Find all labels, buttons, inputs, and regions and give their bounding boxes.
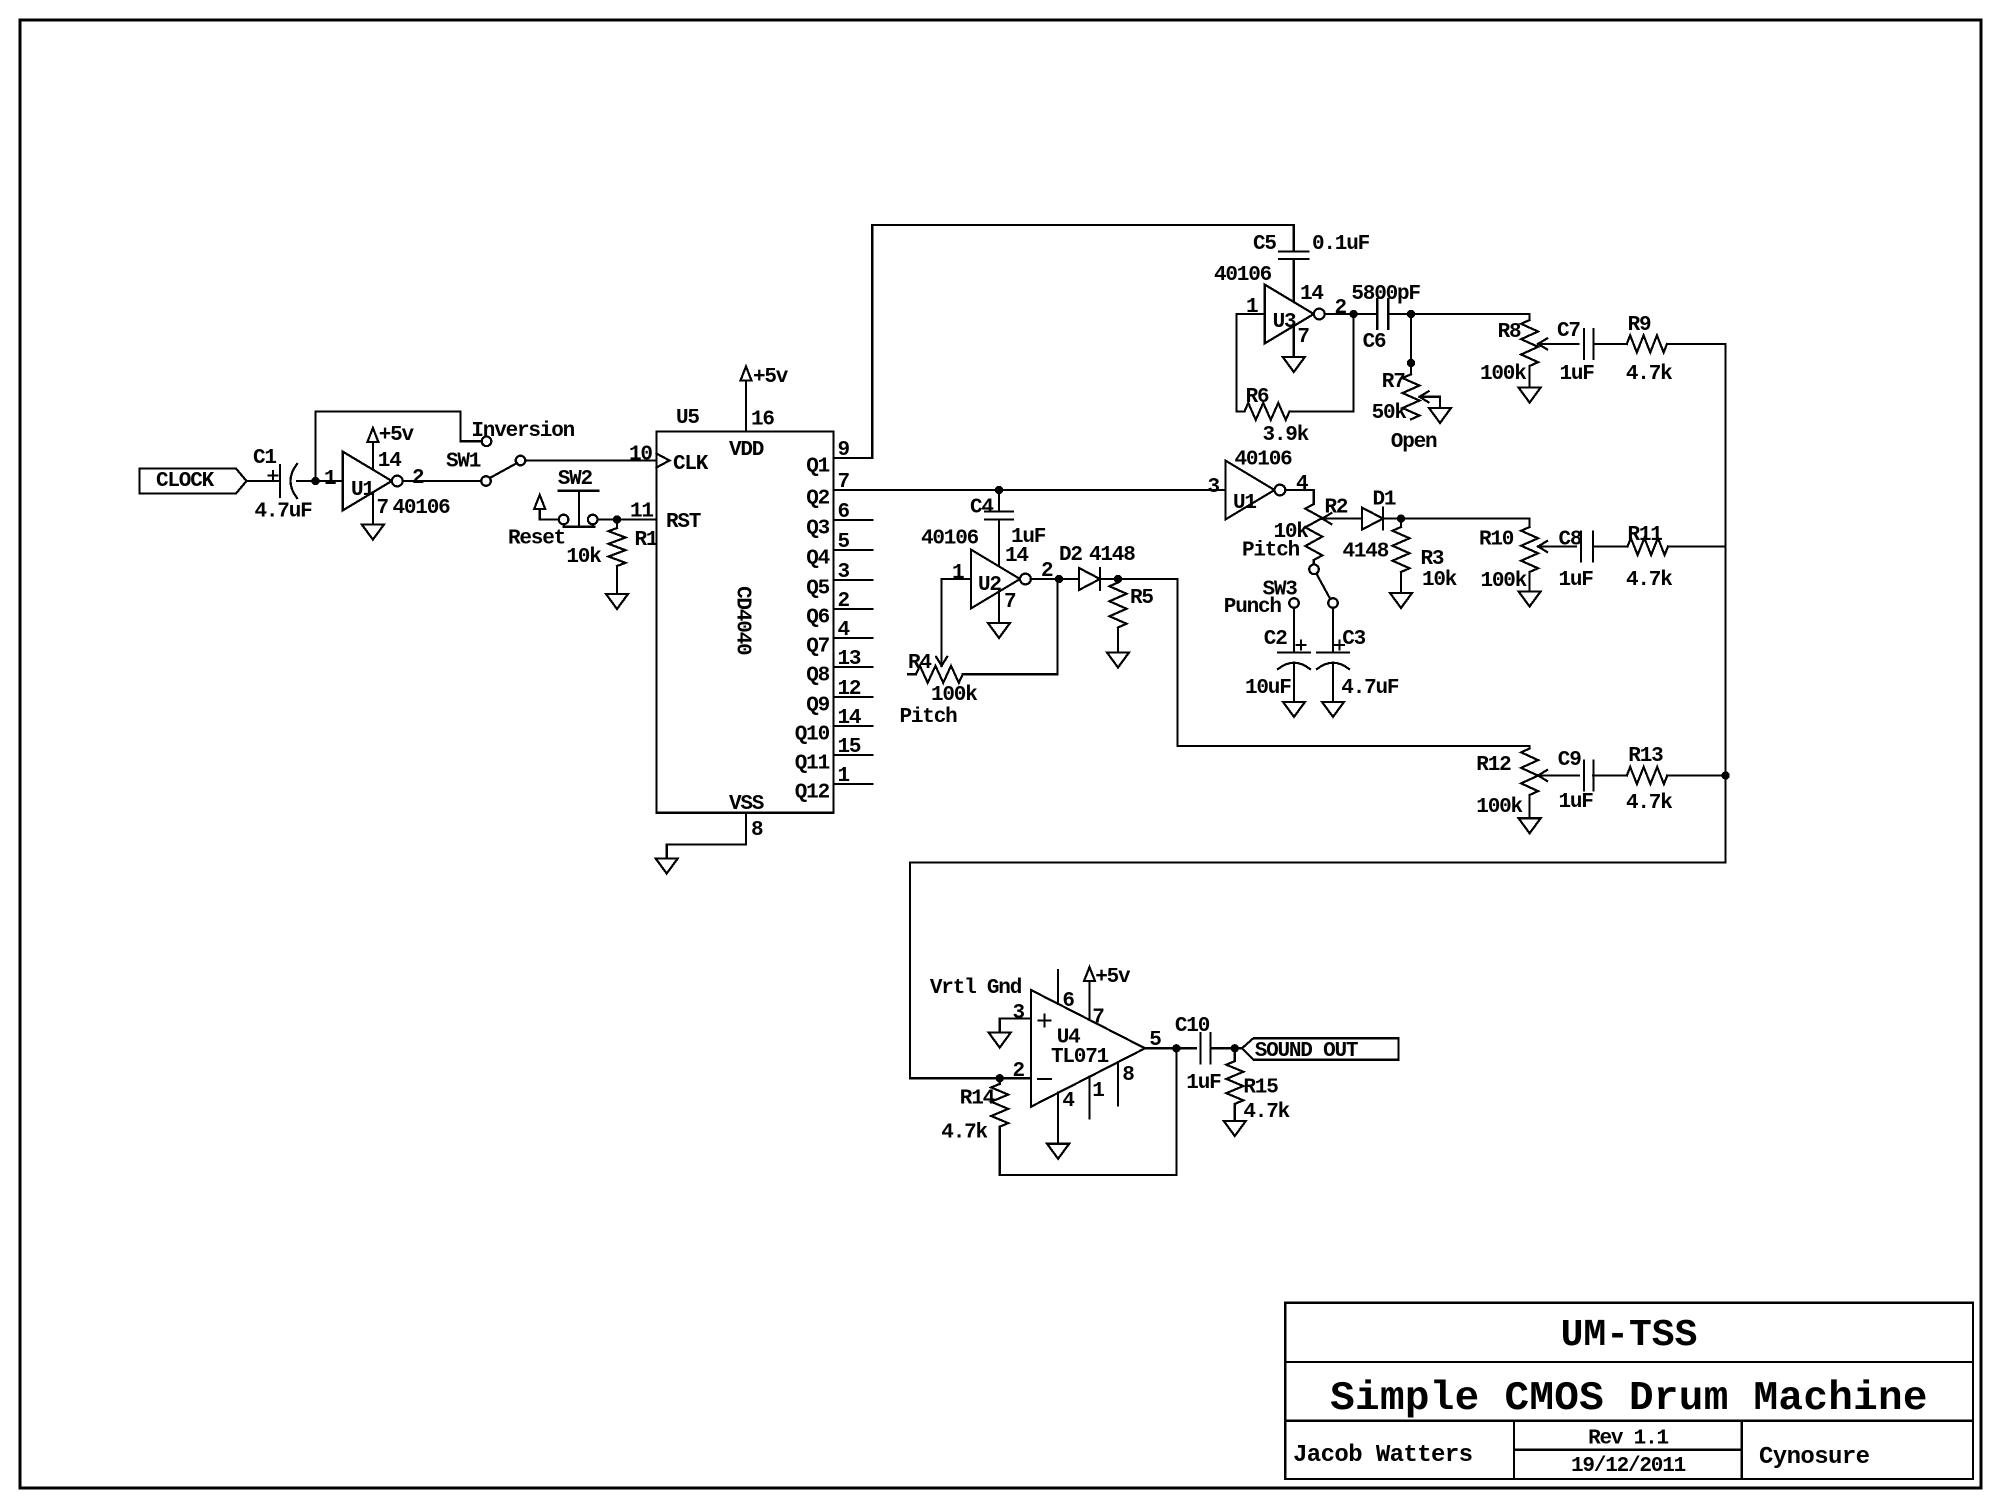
capacitor C6 [1376,299,1378,329]
svg-text:D2: D2 [1059,544,1082,567]
svg-text:SW1: SW1 [446,451,481,474]
resistor R6 [1237,410,1245,412]
svg-text:4.7uF: 4.7uF [1341,677,1399,700]
svg-text:4.7k: 4.7k [1626,363,1672,386]
svg-text:Inversion: Inversion [471,420,574,443]
node U2 out junction [1055,575,1063,583]
svg-text:4.7uF: 4.7uF [255,501,313,524]
svg-text:Q9: Q9 [806,695,829,718]
resistor R13 [1627,767,1668,784]
pin Q9 [834,696,873,698]
svg-text:Simple CMOS Drum Machine: Simple CMOS Drum Machine [1330,1376,1928,1422]
wire pin1 loop to R4 wiper [942,579,971,666]
svg-text:3.9k: 3.9k [1263,424,1309,447]
ground pin 4 [1057,1093,1059,1144]
svg-text:4.7k: 4.7k [1243,1101,1289,1124]
node Inversion contact [482,437,492,447]
svg-text:C1: C1 [253,447,276,470]
wire output pin 5 [1145,1047,1196,1049]
svg-text:4.7k: 4.7k [941,1122,987,1145]
svg-text:R15: R15 [1243,1077,1278,1100]
svg-text:8: 8 [1122,1064,1134,1087]
node bus junction [1721,771,1729,779]
connector SOUND OUT [1242,1038,1399,1059]
wire [1667,343,1726,345]
svg-text:U1: U1 [1233,492,1256,515]
svg-text:5: 5 [838,531,850,554]
pin 1 stub [1088,1077,1090,1119]
svg-text:5: 5 [1149,1029,1161,1052]
pin Q12 [834,783,873,785]
ground C3 [1322,702,1344,717]
pin Q11 [834,754,873,756]
svg-text:SOUND OUT: SOUND OUT [1255,1040,1358,1063]
svg-text:100k: 100k [1481,570,1527,593]
svg-text:U5: U5 [676,407,699,430]
svg-text:3: 3 [838,561,850,584]
svg-text:12: 12 [838,678,861,701]
diode D1 4148 [1362,508,1383,530]
wire [525,459,656,461]
wire bus to op-amp [910,863,1726,1079]
svg-text:1uF: 1uF [1560,363,1595,386]
svg-text:14: 14 [378,450,401,473]
power +5v U1 [372,442,374,470]
wire pin 3 [1000,1018,1031,1032]
node C6 output junction [1407,310,1415,318]
node C4 junction [995,486,1003,494]
wire R4 to output [1056,579,1058,674]
wire inversion feedback [316,412,482,481]
ground C2 [1283,702,1305,717]
svg-text:U2: U2 [978,574,1001,597]
IC U5 CD4040 [656,431,833,812]
svg-text:U3: U3 [1273,311,1296,334]
ground U3 pin 7 [1293,326,1295,357]
svg-text:2: 2 [412,467,424,490]
svg-text:R12: R12 [1476,754,1511,777]
ground U1 [372,492,374,524]
svg-text:40106: 40106 [1214,264,1272,287]
pin Q6 [834,608,873,610]
resistor R9 [1627,335,1667,352]
switch SW2 pushbutton [559,490,599,492]
wire [1593,545,1628,547]
wire [1594,343,1627,345]
capacitor C8 [1580,532,1582,562]
svg-text:R4: R4 [908,652,931,675]
svg-text:Q2: Q2 [806,488,829,511]
svg-text:8: 8 [751,819,763,842]
svg-text:Pitch: Pitch [1242,540,1300,563]
pin Q2 [834,489,873,491]
capacitor C7 [1583,329,1585,359]
svg-text:6: 6 [838,501,850,524]
svg-text:CLK: CLK [673,453,709,476]
svg-text:Punch: Punch [1224,596,1282,619]
svg-text:R13: R13 [1628,745,1663,768]
svg-text:50k: 50k [1372,402,1407,425]
svg-text:C7: C7 [1557,320,1580,343]
potentiometer R12 100k [1521,749,1538,796]
capacitor C10 [1199,1033,1201,1063]
resistor R5 [1117,579,1119,583]
svg-text:R7: R7 [1382,371,1405,394]
pin 6 stub [1057,970,1059,1004]
wire [1383,517,1530,519]
svg-text:Vrtl Gnd: Vrtl Gnd [930,977,1022,1000]
svg-text:4: 4 [1296,473,1308,496]
svg-text:2: 2 [1335,297,1347,320]
wire Q2 to osc2 [834,489,1226,491]
svg-text:R14: R14 [960,1088,995,1111]
wire pin1 loop [1237,314,1265,411]
ground R10 [1519,592,1541,607]
pin Q8 [834,666,873,668]
node sound out junction [1231,1044,1239,1052]
ground R15 [1224,1121,1246,1136]
svg-text:40106: 40106 [921,528,979,551]
wire [1352,314,1354,411]
potentiometer R7 50k [1403,374,1420,419]
node U3 feedback junction [1349,310,1357,318]
svg-text:4: 4 [838,619,850,642]
pin Q1 [834,457,873,459]
svg-text:5800pF: 5800pF [1351,283,1420,306]
ground VSS pin 8 [667,813,746,859]
ground R12 [1519,818,1541,833]
svg-text:2: 2 [838,590,850,613]
svg-text:1uF: 1uF [1559,791,1594,814]
node inverting input junction [996,1074,1004,1082]
resistor R14 4.7k feedback [999,1078,1001,1084]
capacitor C9 [1583,761,1585,791]
svg-text:6: 6 [1062,990,1074,1013]
svg-text:R2: R2 [1325,497,1348,520]
switch SW1 [481,476,491,486]
capacitor C1 [279,465,281,497]
resistor R11 [1628,538,1669,555]
svg-text:R9: R9 [1628,314,1651,337]
svg-text:14: 14 [1005,545,1028,568]
potentiometer R2 10k Pitch [1305,504,1322,560]
svg-text:D1: D1 [1373,489,1396,512]
wire [1388,313,1529,315]
svg-text:10: 10 [629,444,652,467]
wire [297,480,343,482]
svg-text:C5: C5 [1253,233,1276,256]
pin Q4 [834,549,873,551]
node RST junction [613,515,621,523]
svg-text:Q11: Q11 [795,753,830,776]
svg-text:0.1uF: 0.1uF [1312,233,1370,256]
ground R8 [1519,388,1541,403]
svg-text:100k: 100k [931,684,977,707]
svg-text:Q4: Q4 [806,548,829,571]
wire [598,518,657,520]
svg-text:R11: R11 [1628,524,1663,547]
svg-text:SW2: SW2 [558,468,593,491]
potentiometer R4 100k Pitch [936,657,942,666]
node D2 junction [1114,575,1122,583]
svg-text:4.7k: 4.7k [1626,569,1672,592]
svg-text:16: 16 [751,409,774,432]
svg-text:Rev 1.1: Rev 1.1 [1588,1428,1668,1451]
svg-text:R6: R6 [1246,386,1269,409]
svg-text:Q10: Q10 [795,724,830,747]
svg-text:UM-TSS: UM-TSS [1561,1314,1698,1357]
wire [540,518,559,520]
power +5v VDD pin 16 [745,381,747,432]
svg-text:U1: U1 [351,479,374,502]
svg-text:7: 7 [1092,1007,1104,1030]
pin Q7 [834,637,873,639]
wire output [1031,578,1079,580]
title block [1285,1303,1973,1479]
svg-text:1: 1 [324,468,336,491]
capacitor C3 4.7uF [1332,608,1334,653]
svg-text:10uF: 10uF [1245,677,1291,700]
svg-text:+5v: +5v [753,366,789,389]
wire [247,480,280,482]
wire [403,480,482,482]
svg-text:Reset: Reset [508,528,565,551]
wire output [1326,313,1377,315]
svg-text:3: 3 [1013,1002,1025,1025]
ground R3 [1390,593,1412,608]
svg-text:15: 15 [838,736,861,759]
svg-text:Q1: Q1 [806,456,829,479]
svg-text:C10: C10 [1175,1015,1210,1038]
svg-text:100k: 100k [1476,796,1522,819]
svg-text:1: 1 [1246,296,1258,319]
pin CLK wedge [656,454,669,468]
svg-text:C2: C2 [1264,628,1287,651]
wire [1410,314,1412,374]
svg-text:1: 1 [838,765,850,788]
svg-text:10k: 10k [1422,569,1457,592]
resistor R3 10k [1400,519,1402,527]
svg-text:VDD: VDD [729,439,764,462]
power +5v SW2 [534,495,545,509]
svg-text:2: 2 [1013,1060,1025,1083]
svg-text:Jacob Watters: Jacob Watters [1293,1442,1472,1469]
svg-text:1uF: 1uF [1186,1072,1221,1095]
node D1 junction [1397,514,1405,522]
svg-text:11: 11 [630,501,653,524]
capacitor C5 [1293,225,1295,252]
ground U2 pin 7 [998,591,1000,623]
op-amp U1 inverter gate A [343,452,392,511]
power +5v pin 7 [1084,967,1095,981]
wire [1211,1047,1242,1049]
wire mix bus [1724,344,1726,863]
switch SW3 Punch [1309,565,1319,575]
wire [1593,774,1627,776]
svg-text:Q8: Q8 [806,665,829,688]
op-amp U4 TL071 [1031,990,1145,1107]
svg-text:1: 1 [1092,1080,1104,1103]
svg-text:Q6: Q6 [806,607,829,630]
svg-text:CLOCK: CLOCK [156,470,215,493]
svg-text:R3: R3 [1421,548,1444,571]
svg-text:4148: 4148 [1089,544,1135,567]
wire [1322,517,1362,519]
wire [1100,578,1178,580]
svg-text:R1: R1 [635,529,658,552]
svg-text:RST: RST [666,511,701,534]
svg-text:40106: 40106 [1235,449,1293,472]
resistor R15 4.7k [1234,1048,1236,1061]
svg-text:40106: 40106 [393,497,451,520]
svg-text:C8: C8 [1559,529,1582,552]
svg-text:9: 9 [838,439,850,462]
svg-text:14: 14 [838,707,861,730]
pin Q10 [834,725,873,727]
svg-text:Q5: Q5 [806,578,829,601]
capacitor C4 [998,490,1000,512]
wire output [1285,490,1314,504]
node output junction [1172,1044,1180,1052]
wire to R12 [1178,579,1530,749]
node clock-inverter junction [311,477,319,485]
diode D2 4148 [1079,568,1100,590]
svg-text:7: 7 [377,497,389,520]
svg-text:4.7k: 4.7k [1626,792,1672,815]
connector CLOCK [140,469,247,494]
capacitor C2 10uF [1293,608,1295,653]
svg-text:C6: C6 [1363,331,1386,354]
svg-text:R8: R8 [1498,321,1521,344]
svg-text:R5: R5 [1130,587,1153,610]
pin Q3 [834,519,873,521]
ground R5 [1107,653,1129,668]
svg-text:1: 1 [952,562,964,585]
svg-text:C3: C3 [1342,628,1365,651]
svg-text:+5v: +5v [1095,966,1131,989]
pin Q5 [834,579,873,581]
ground R7 wiper [1429,408,1451,423]
svg-text:10k: 10k [566,546,601,569]
potentiometer R10 100k [1528,519,1530,527]
ground virtual ground pin 3 [989,1033,1011,1048]
svg-text:R10: R10 [1479,529,1514,552]
pin 8 stub [1117,1062,1119,1105]
potentiometer R8 100k [1528,314,1530,320]
wire Q1 to osc3 [872,225,1294,458]
svg-text:CD4040: CD4040 [731,586,754,655]
svg-text:TL071: TL071 [1051,1046,1109,1069]
svg-text:100k: 100k [1480,363,1526,386]
svg-text:19/12/2011: 19/12/2011 [1571,1455,1686,1478]
svg-text:+5v: +5v [379,424,415,447]
wire [1668,545,1726,547]
wire [1667,774,1725,776]
svg-text:Q7: Q7 [806,636,829,659]
svg-text:4: 4 [1062,1090,1074,1113]
svg-text:Cynosure: Cynosure [1759,1444,1870,1471]
svg-text:Q12: Q12 [795,782,830,805]
resistor R1 [616,520,618,529]
svg-text:7: 7 [1004,591,1016,614]
svg-text:Pitch: Pitch [900,706,958,729]
svg-text:Open: Open [1391,431,1437,454]
svg-text:4148: 4148 [1343,541,1389,564]
svg-text:13: 13 [838,648,861,671]
svg-text:C4: C4 [970,497,993,520]
ground R1 [606,594,628,609]
wire feedback loop [1000,1048,1177,1175]
svg-text:14: 14 [1300,283,1323,306]
svg-text:1uF: 1uF [1559,569,1594,592]
svg-text:7: 7 [1297,326,1309,349]
svg-text:3: 3 [1208,476,1220,499]
svg-text:C9: C9 [1558,749,1581,772]
svg-text:Q3: Q3 [806,518,829,541]
